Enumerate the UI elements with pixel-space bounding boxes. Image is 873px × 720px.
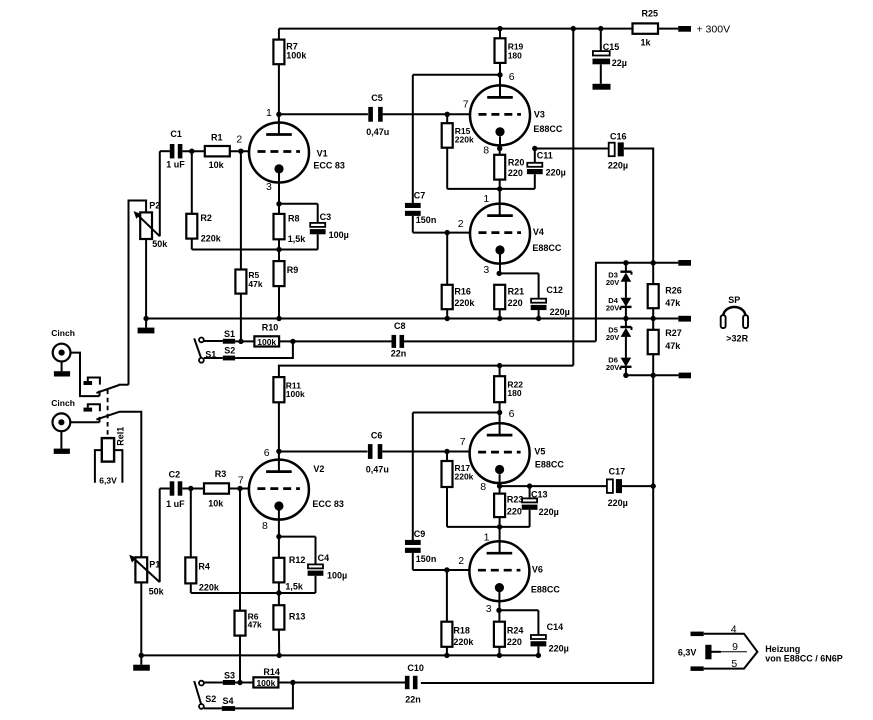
wire R14 to C10	[278, 682, 405, 684]
svg-text:E88CC: E88CC	[531, 585, 561, 595]
svg-text:8: 8	[262, 520, 268, 532]
ground C15	[593, 84, 611, 90]
svg-text:47k: 47k	[665, 298, 681, 308]
resistor R27 47k	[652, 319, 654, 330]
svg-text:E88CC: E88CC	[535, 460, 565, 470]
capacitor C9 150n	[412, 413, 414, 541]
svg-text:1 uF: 1 uF	[166, 499, 185, 509]
svg-text:E88CC: E88CC	[533, 124, 563, 134]
svg-text:22µ: 22µ	[612, 58, 627, 68]
node pin 6 V2	[276, 449, 281, 454]
svg-text:0,47u: 0,47u	[366, 127, 389, 137]
resistor R23 220	[499, 486, 501, 494]
wire B+ rail top	[279, 28, 633, 30]
node pin 1 V1	[276, 112, 281, 117]
svg-text:P2: P2	[149, 201, 160, 211]
headphone SP	[723, 307, 745, 316]
node pin 3 V4	[499, 250, 501, 273]
svg-text:100k: 100k	[256, 678, 275, 688]
svg-text:220µ: 220µ	[608, 498, 628, 508]
junction R5 S1 R10	[238, 339, 243, 344]
svg-text:R1: R1	[211, 133, 223, 143]
svg-text:S1: S1	[224, 329, 235, 339]
triode V6	[469, 541, 529, 601]
svg-text:V1: V1	[317, 149, 328, 159]
capacitor C7 150n	[412, 75, 414, 203]
zener D6 20V	[625, 337, 627, 358]
junction P2 bus	[143, 316, 148, 321]
wire grid V2 down to R6	[239, 489, 241, 611]
junction R14 S4 C10	[290, 680, 295, 685]
svg-text:R2: R2	[200, 213, 212, 223]
resistor R14 100k	[253, 677, 278, 687]
switch S2 pole	[199, 681, 204, 686]
capacitor C15 22u	[600, 29, 602, 51]
svg-text:Rel1: Rel1	[116, 427, 126, 446]
svg-text:R26: R26	[665, 286, 682, 296]
svg-text:6: 6	[509, 408, 515, 420]
triode V3	[499, 75, 501, 98]
resistor R26 47k	[652, 263, 654, 284]
svg-text:100k: 100k	[286, 389, 305, 399]
junction C1 R1 R2	[189, 149, 194, 154]
wire output rail to C17 and C10	[421, 375, 653, 683]
resistor R16 220k	[446, 233, 448, 285]
junction C13	[527, 483, 532, 488]
svg-text:C3: C3	[320, 212, 332, 222]
junction C11	[532, 146, 537, 151]
junction R18 grid V6	[444, 567, 449, 572]
svg-text:100k: 100k	[257, 337, 276, 347]
svg-text:6: 6	[264, 447, 270, 459]
junction C12 bus	[536, 316, 541, 321]
junction R12 bottom	[276, 590, 281, 595]
junction C17 rail	[651, 483, 656, 488]
svg-text:6,3V: 6,3V	[99, 476, 117, 486]
resistor R21 220	[494, 285, 505, 309]
terminal bus SP common	[678, 316, 691, 322]
svg-text:20V: 20V	[606, 333, 619, 342]
capacitor C14 220u	[531, 635, 546, 639]
svg-text:1: 1	[266, 107, 272, 119]
terminal S3	[223, 680, 235, 685]
svg-text:3: 3	[483, 264, 489, 276]
svg-text:C6: C6	[371, 430, 383, 440]
svg-text:1,5k: 1,5k	[288, 234, 307, 244]
svg-text:220k: 220k	[453, 637, 474, 647]
svg-text:220: 220	[508, 168, 523, 178]
junction R20 bottom to V4 anode	[497, 186, 502, 191]
svg-text:R14: R14	[263, 667, 280, 677]
svg-text:2: 2	[236, 134, 242, 146]
svg-text:220µ: 220µ	[549, 644, 569, 654]
wire C16 to node A	[624, 149, 653, 263]
junction R17 grid V5	[444, 449, 449, 454]
resistor R2 220k	[191, 151, 193, 214]
svg-text:7: 7	[238, 475, 244, 487]
junction R16 grid V4	[445, 230, 450, 235]
triode V5	[499, 413, 501, 436]
junction R10 S2 C8	[290, 339, 295, 344]
heater connector terminal 5	[691, 666, 704, 671]
junction C2 R3 R4	[188, 486, 193, 491]
svg-text:180: 180	[507, 388, 521, 398]
svg-text:22n: 22n	[405, 694, 421, 704]
heater connector shell	[704, 634, 758, 669]
wire B+ feed to R22 and R11	[279, 366, 573, 378]
svg-text:0,47u: 0,47u	[366, 464, 389, 474]
svg-text:C2: C2	[169, 469, 181, 479]
wire V1 anode to C5	[279, 113, 368, 115]
svg-text:3: 3	[486, 603, 492, 615]
svg-text:C17: C17	[609, 467, 626, 477]
svg-text:R4: R4	[198, 562, 210, 572]
svg-text:C10: C10	[407, 663, 424, 673]
svg-text:20V: 20V	[606, 304, 619, 313]
svg-text:220: 220	[507, 637, 522, 647]
wire grid V4 from C7	[413, 232, 471, 234]
svg-text:SP: SP	[728, 295, 740, 305]
heater 6,3V source	[705, 645, 711, 660]
svg-text:1 uF: 1 uF	[166, 159, 185, 169]
svg-text:7: 7	[463, 99, 469, 111]
svg-text:R24: R24	[507, 626, 524, 636]
svg-text:22n: 22n	[391, 349, 407, 359]
resistor R24 220	[498, 610, 500, 621]
wire S3 to R14	[235, 682, 253, 684]
svg-text:9: 9	[732, 641, 738, 653]
svg-text:100k: 100k	[286, 50, 307, 60]
svg-text:220: 220	[508, 298, 523, 308]
svg-text:220µ: 220µ	[539, 507, 559, 517]
capacitor C2 1uF	[160, 488, 170, 490]
svg-text:220µ: 220µ	[546, 168, 566, 178]
node pin 2 V1 grid	[230, 150, 250, 152]
wire P1 bottom to bus	[140, 582, 142, 655]
svg-text:2: 2	[458, 218, 464, 230]
junction D4 bus	[623, 316, 628, 321]
svg-text:V3: V3	[534, 109, 545, 119]
wire C9 node to pin 6 V5	[413, 412, 500, 414]
capacitor C3 100u	[310, 223, 325, 227]
svg-text:C8: C8	[394, 321, 406, 331]
svg-text:47k: 47k	[248, 279, 262, 289]
junction R21 bus	[497, 316, 502, 321]
switch S2 lever	[194, 681, 201, 704]
wire P1 top to relay contact 2	[119, 412, 141, 558]
potentiometer P2 50k	[140, 212, 152, 239]
resistor R11 100k	[273, 377, 284, 402]
resistor R6 47k	[235, 611, 246, 636]
svg-text:150n: 150n	[416, 554, 437, 564]
svg-text:6,3V: 6,3V	[678, 648, 697, 658]
svg-text:180: 180	[508, 50, 522, 60]
svg-text:R12: R12	[289, 555, 306, 565]
junction R9 bus	[276, 316, 281, 321]
svg-text:20V: 20V	[606, 278, 619, 287]
svg-text:V5: V5	[534, 446, 545, 456]
wire V3 cathode bottom node	[447, 188, 535, 190]
triode V4	[470, 204, 530, 264]
svg-text:R8: R8	[288, 214, 300, 224]
resistor R10 100k	[254, 336, 279, 346]
capacitor C11 220u	[534, 149, 536, 163]
svg-text:S2: S2	[224, 346, 235, 356]
svg-text:Cinch: Cinch	[51, 398, 75, 408]
wire B+ rail down right side	[572, 29, 574, 366]
node pin 8 V2	[278, 511, 280, 537]
junction R13 bus	[277, 653, 282, 658]
svg-text:220k: 220k	[454, 298, 475, 308]
svg-text:>32R: >32R	[726, 334, 748, 344]
terminal S2	[223, 356, 235, 361]
svg-text:150n: 150n	[416, 215, 437, 225]
svg-text:8: 8	[483, 145, 489, 157]
zener D5 20V	[625, 319, 627, 328]
wire V5 cathode bottom node	[447, 526, 530, 528]
potentiometer P1 50k	[135, 557, 147, 582]
wire ground bus bottom channel	[141, 654, 538, 656]
junction R15 grid V3	[445, 112, 450, 117]
wire C7 node to pin 6 V3	[413, 74, 500, 76]
wire V1 cathode to node	[278, 173, 280, 204]
junction R19 top	[497, 26, 502, 31]
junction C15	[598, 26, 603, 31]
svg-text:8: 8	[480, 481, 486, 493]
svg-text:R25: R25	[642, 9, 659, 19]
svg-text:220µ: 220µ	[608, 160, 628, 170]
resistor R9	[278, 250, 280, 262]
svg-text:220k: 220k	[455, 135, 474, 145]
capacitor C8 22n	[392, 335, 397, 348]
svg-text:R27: R27	[665, 328, 682, 338]
node C wire and terminal	[626, 374, 679, 376]
relay contact 1	[84, 381, 93, 385]
switch S1 pole	[199, 338, 204, 343]
junction C14 bus	[536, 653, 541, 658]
node pin 7 V2 grid	[229, 488, 249, 490]
triode V1	[278, 114, 280, 134]
svg-text:220k: 220k	[455, 472, 474, 482]
resistor R5 47k	[235, 270, 246, 294]
wire S4 up to R14 node	[235, 683, 293, 709]
svg-text:C13: C13	[531, 489, 548, 499]
resistor R20 220	[499, 149, 501, 155]
svg-text:V4: V4	[533, 227, 544, 237]
junction B+ rail right	[571, 26, 576, 31]
svg-text:C12: C12	[546, 285, 563, 295]
svg-text:V6: V6	[532, 565, 543, 575]
zener D3 20V	[625, 263, 627, 272]
resistor R18 220k	[446, 570, 448, 622]
heater connector terminal 4	[691, 632, 704, 637]
wire P2 bottom to bus	[145, 239, 147, 319]
svg-text:1k: 1k	[641, 38, 652, 48]
node pin 3 V6	[498, 588, 500, 611]
svg-text:R20: R20	[508, 157, 525, 167]
svg-text:4: 4	[731, 623, 737, 635]
junction R18 bus	[444, 653, 449, 658]
resistor R13	[278, 593, 280, 605]
capacitor C12 220u	[531, 299, 546, 303]
junction P1 bus	[139, 653, 144, 658]
svg-text:R18: R18	[453, 626, 470, 636]
svg-text:C14: C14	[547, 622, 564, 632]
capacitor C17 220u	[607, 479, 613, 493]
capacitor C16 220u	[535, 148, 609, 150]
switch S1 lower pole	[199, 358, 204, 363]
svg-text:C16: C16	[610, 132, 627, 142]
svg-text:S2: S2	[205, 694, 216, 704]
node V1 cathode R8 C3	[276, 201, 281, 206]
wire C8 to output node A	[596, 263, 626, 342]
svg-text:R9: R9	[287, 265, 299, 275]
resistor R25	[633, 23, 659, 33]
svg-text:R16: R16	[454, 287, 471, 297]
relay contact 2	[84, 408, 93, 412]
node pin 6 V5	[497, 410, 502, 415]
svg-text:220µ: 220µ	[550, 307, 570, 317]
node V2 cathode R12 C4	[279, 536, 316, 538]
wire V2 cathode feedback line	[191, 592, 316, 594]
svg-text:C11: C11	[537, 151, 553, 161]
svg-text:20V: 20V	[606, 363, 619, 372]
svg-text:Cinch: Cinch	[51, 328, 75, 338]
wire grid V6 from C9	[413, 569, 470, 571]
svg-text:C7: C7	[414, 190, 426, 200]
svg-text:100µ: 100µ	[327, 570, 347, 580]
svg-text:Heizung: Heizung	[765, 644, 800, 654]
junction R16 bus	[445, 316, 450, 321]
wire R10 to C8	[279, 340, 392, 342]
svg-text:C4: C4	[318, 553, 330, 563]
svg-text:C1: C1	[170, 129, 182, 139]
svg-text:C5: C5	[371, 93, 383, 103]
resistor R1 10k	[205, 146, 230, 156]
capacitor C13 220u	[529, 486, 531, 498]
capacitor C5 0,47u	[368, 107, 373, 122]
svg-text:220: 220	[507, 506, 522, 516]
resistor R17 220k	[446, 452, 448, 462]
svg-text:50k: 50k	[149, 586, 165, 596]
wire signal bus top channel	[146, 318, 678, 320]
resistor R3 10k	[204, 483, 229, 493]
svg-text:2: 2	[458, 555, 464, 567]
capacitor C4 100u	[308, 564, 323, 568]
svg-text:S4: S4	[223, 696, 234, 706]
node A wire and terminal	[626, 262, 678, 264]
svg-text:R13: R13	[289, 612, 306, 622]
junction R6 S3 R14	[237, 680, 242, 685]
svg-text:10k: 10k	[208, 498, 224, 508]
wire R25 to +300V terminal	[658, 28, 678, 30]
relay Rel1 coil 6,3V	[95, 450, 123, 483]
svg-text:5: 5	[731, 658, 737, 670]
svg-text:1: 1	[483, 193, 489, 205]
node pin 6 V3	[497, 72, 502, 77]
zener D4 20V	[625, 281, 627, 298]
resistor R7 100k	[278, 29, 280, 40]
junction R24 bus	[497, 653, 502, 658]
terminal S4	[222, 706, 235, 711]
svg-text:220k: 220k	[201, 234, 222, 244]
ground Cinch 2	[60, 431, 62, 448]
svg-text:3: 3	[266, 181, 272, 193]
ground bus left	[145, 319, 147, 328]
terminal +300V	[678, 26, 691, 32]
wire P2 top to relay contact 1	[129, 201, 147, 385]
switch S2 lower pole	[199, 704, 204, 709]
svg-text:S3: S3	[224, 671, 235, 681]
capacitor C10 22n	[405, 676, 410, 689]
svg-text:ECC 83: ECC 83	[312, 499, 344, 509]
wire S1 to R10	[235, 340, 254, 342]
wire V1 cathode feedback line	[192, 249, 318, 251]
svg-text:100µ: 100µ	[329, 230, 349, 240]
svg-text:50k: 50k	[152, 239, 168, 249]
resistor R15 220k	[446, 114, 448, 123]
junction R26 bus	[651, 316, 656, 321]
switch S1 lever	[194, 338, 201, 358]
relay Rel1 actuator link	[107, 390, 109, 439]
junction R22 B+	[497, 363, 502, 368]
svg-text:P1: P1	[149, 560, 160, 570]
junction R23 bottom to V6 anode	[497, 524, 502, 529]
wire C2 to P1 wiper	[159, 489, 161, 583]
resistor R4 220k	[190, 489, 192, 558]
svg-text:R21: R21	[508, 287, 525, 297]
svg-text:R23: R23	[507, 494, 524, 504]
ground bus bottom	[140, 655, 142, 664]
svg-text:220k: 220k	[199, 583, 220, 593]
svg-text:ECC 83: ECC 83	[313, 161, 345, 171]
svg-text:C9: C9	[414, 529, 426, 539]
node pin 8 V3	[499, 137, 501, 149]
wire grid node down to R5	[240, 151, 242, 269]
svg-text:R10: R10	[262, 323, 279, 333]
wire Cinch 2 to relay contact 2	[70, 421, 99, 423]
svg-text:10k: 10k	[209, 160, 225, 170]
triode V2	[278, 451, 280, 471]
svg-text:R3: R3	[215, 469, 227, 479]
terminal S1	[223, 339, 235, 344]
svg-text:+ 300V: + 300V	[697, 23, 731, 35]
capacitor C6 0,47u	[279, 451, 368, 453]
svg-text:V2: V2	[313, 464, 324, 474]
svg-text:47k: 47k	[665, 341, 681, 351]
wire Cinch 1 to relay contact 1	[71, 353, 100, 397]
junction R8 bottom	[276, 247, 281, 252]
svg-text:7: 7	[460, 436, 466, 448]
wire S2 up to R10 node	[235, 341, 293, 358]
svg-text:47k: 47k	[248, 620, 262, 630]
resistor R12 1,5k	[278, 537, 280, 558]
resistor R19 180	[499, 29, 501, 39]
resistor R8 1,5k	[278, 204, 280, 214]
svg-text:E88CC: E88CC	[532, 243, 562, 253]
svg-text:6: 6	[509, 71, 515, 83]
svg-text:von E88CC / 6N6P: von E88CC / 6N6P	[765, 654, 843, 664]
capacitor C1 1uF	[160, 150, 170, 152]
resistor R22 180	[499, 366, 501, 377]
node pin 8 V5	[499, 474, 501, 486]
ground Cinch 1	[61, 362, 63, 372]
svg-text:1,5k: 1,5k	[285, 581, 304, 591]
svg-text:1: 1	[484, 531, 490, 543]
svg-text:C15: C15	[603, 42, 620, 52]
wire C1 to P2 wiper	[159, 151, 161, 236]
